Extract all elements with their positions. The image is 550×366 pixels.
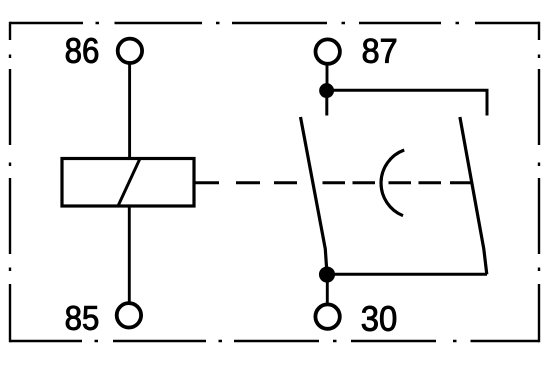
coil diagonal <box>118 159 140 207</box>
label 30 <box>362 306 396 331</box>
junction node at 30 rail <box>319 267 334 282</box>
border frame bottom (dash-dot) <box>10 340 539 342</box>
label 87 <box>363 39 396 63</box>
terminal circle 87 <box>316 39 340 63</box>
mechanical link dashed line <box>196 181 472 184</box>
terminal circle 86 <box>118 39 142 63</box>
fixed contact stub left <box>325 90 328 116</box>
bottom rail wire 30 <box>327 273 487 276</box>
actuator arc <box>381 150 404 216</box>
wire node to 30 <box>326 274 329 303</box>
movable contact blade left <box>301 117 328 274</box>
border frame left (dash-dot) <box>9 22 11 342</box>
junction node at 87 rail <box>320 84 334 98</box>
movable contact blade right <box>460 117 487 274</box>
terminal circle 85 <box>117 303 141 327</box>
border frame top (dash-dot) <box>10 22 539 24</box>
wire coil to 85 <box>128 206 131 302</box>
wire 86 to coil <box>128 65 131 159</box>
border frame right (dash-dot) <box>538 22 540 342</box>
label 86 <box>66 38 98 63</box>
wire 87 to node <box>326 65 329 90</box>
top rail wire 87 <box>327 90 487 115</box>
label 85 <box>66 306 98 330</box>
terminal circle 30 <box>315 304 339 328</box>
coil K1 box <box>62 159 194 207</box>
